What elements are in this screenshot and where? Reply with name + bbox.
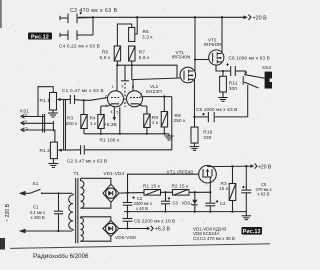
svg-text:3,3 к: 3,3 к [142,34,153,39]
C4 plus mark [216,200,218,202]
wire mains top to switch [24,192,31,194]
node dot R2/VD9 [194,191,196,193]
svg-text:+6,3 В: +6,3 В [155,227,171,233]
figure label Рис.13 [242,227,263,235]
XS1 contact pin 5 [21,128,25,132]
node dot R1/R2/C3 [164,191,166,193]
svg-text:IRF540N: IRF540N [204,42,223,47]
node dot C5 psu [245,165,247,167]
wire output node [195,116,209,118]
ground symbol bus [165,134,174,140]
svg-text:С1: С1 [33,205,39,210]
node dot grid1 / R3 [83,99,85,101]
svg-text:VD5-VD8: VD5-VD8 [115,235,136,240]
tube VL1 left triode envelope [108,91,124,107]
capacitor C3 [60,12,93,23]
zener VD9 [191,192,198,211]
svg-text:ХS2: ХS2 [262,65,272,70]
svg-text:Рис.13: Рис.13 [243,229,261,235]
main wire to R1 [128,191,211,194]
svg-text:1 к: 1 к [90,121,97,126]
resistor R10 [191,127,198,143]
grid right triode [130,97,139,99]
bus node R4 [100,133,102,135]
node dot C3/C4 to rail [92,16,94,18]
cathode left triode [101,104,119,106]
wire VT2 drain to rail [221,17,223,53]
svg-text:х 40 В: х 40 В [136,206,148,211]
node dot C1 bottom [57,230,59,232]
wire R8 to ground bus [146,128,148,134]
resistor R2 psu [173,190,190,196]
svg-text:0,1 мк х: 0,1 мк х [30,210,46,215]
svg-text:5,6 к: 5,6 к [139,55,150,60]
node dot R6 branch [136,16,138,18]
svg-text:R5: R5 [102,50,109,55]
capacitor C2 filter [123,193,132,212]
node dot R7 column [131,64,133,66]
wire output node to R10 [194,117,196,127]
C3 plus mark [168,197,170,199]
svg-text:Рис.12: Рис.12 [31,34,49,40]
svg-text:7: 7 [140,93,142,97]
C2 plus mark [132,196,134,198]
svg-text:5: 5 [116,111,118,115]
svg-text:VD1-VD4: VD1-VD4 [104,171,125,176]
+20V arrow [244,15,248,19]
svg-text:250 к: 250 к [174,118,187,123]
resistor R11 [220,76,227,92]
resistor R7 [129,46,135,61]
wire sec2 bottom to bridge [81,237,111,242]
capacitor C6 [223,63,246,76]
R1.2 wiper arrow [58,149,62,152]
resistor R6 [129,28,135,42]
bus dot VD9 [194,211,196,213]
svg-text:С4 0,22 мк х 63 В: С4 0,22 мк х 63 В [59,44,100,49]
T1 primary winding [69,193,73,231]
capacitor C4 psu [205,192,215,211]
wire pair wipers link [64,100,66,150]
node dot C1 top [57,192,59,194]
XS1 contact pin 3 [21,114,25,118]
resistor R9 [161,112,167,128]
svg-text:8: 8 [140,103,142,107]
wire sec1 top to bridge [81,178,111,184]
svg-text:С2 0,47 мк х 63 В: С2 0,47 мк х 63 В [67,159,107,164]
potentiometer R1.1 [50,93,57,111]
wire R4 to ground bus [100,129,102,134]
svg-text:х 400 В: х 400 В [31,215,45,220]
wire C4 to rail node [92,17,94,35]
ground under R1.1 [48,110,58,117]
+20V psu arrow [251,164,255,168]
svg-text:R1 100 к: R1 100 к [100,137,120,142]
ground bus upper figure [84,133,169,135]
wire grid2 node to R9 [163,97,165,112]
bus dot R3 [231,211,233,213]
svg-text:4: 4 [110,110,112,114]
wire R5 top to R6 top [117,24,131,46]
transistor VT2 (MOSFET) [209,50,224,65]
svg-text:250 к: 250 к [66,121,79,126]
node dot VT2 gate branch [194,58,196,60]
svg-text:С1 0,47 мк х 63 В: С1 0,47 мк х 63 В [62,88,104,93]
wire mains bottom to T1 primary [24,230,73,232]
svg-text:+20 В: +20 В [258,164,272,170]
capacitor C1 [70,95,84,104]
+6,3V arrow [147,227,151,230]
T1 secondary 1 winding [81,178,84,208]
bus node R8 [146,133,148,135]
bus node R9 [163,133,165,135]
svg-text:R7: R7 [139,50,146,55]
svg-text:IRF540N: IRF540N [172,55,191,60]
wire cathode2 to R8 [146,106,148,114]
capacitor C3 psu [161,192,170,211]
wire R7 bottom column [131,61,133,80]
wire tube to VT1 gate [132,78,181,80]
capacitor C2 [81,145,85,154]
wire XS1 pin3 [23,116,45,118]
node dot C2 / VT1 drain branch [126,192,128,194]
wire left anode [114,65,121,93]
wire VT1 source down [194,80,196,117]
ground under R11 [218,98,228,102]
node dot output [193,116,195,118]
svg-text:VL1: VL1 [150,84,159,89]
wire grid1 to R3 [83,100,85,114]
svg-text:6: 6 [132,85,134,89]
tube shield pin 9 [121,65,129,107]
node dot grid2 / R9 [163,95,165,97]
+20V rail psu [208,165,254,168]
svg-text:С3: С3 [173,201,179,206]
svg-text:15 к: 15 к [219,186,229,191]
svg-text:С5 1000 мк х 63 В: С5 1000 мк х 63 В [196,107,237,112]
svg-text:R1.1: R1.1 [40,98,51,103]
bus dot C4 [209,211,211,213]
grid left triode [111,97,120,99]
wire VT1 psu source to rail [207,165,209,166]
capacitor C1 mains [54,193,63,231]
svg-text:330: 330 [203,135,212,140]
wire R9 to ground bus [163,127,165,134]
svg-text:С4: С4 [220,201,226,206]
resistor R5 [114,46,120,61]
wire R5 bottom to anode node [116,61,118,65]
svg-text:+6,3В: +6,3В [104,122,117,128]
screen terminal bar [52,121,54,131]
resistor R1 psu [144,190,161,196]
svg-text:VD9: VD9 [182,201,191,206]
wire anode bus to VT1 gate bend [117,65,177,78]
connector XS2 jack [243,71,272,89]
XS1 cable screen bars [43,114,45,133]
potentiometer R1.2 [50,142,57,159]
wire R3 psu to bus [232,201,234,212]
svg-text:1: 1 [112,85,114,89]
wire bridge1 to main line [119,192,128,194]
wire R3 to ground bus [83,129,85,134]
node dot C6 tap [222,70,224,72]
svg-text:х 63 В: х 63 В [258,191,270,196]
wire R10 to ground [194,143,196,146]
svg-text:С6 1000 мк х 63 В: С6 1000 мк х 63 В [229,56,270,61]
svg-text:R2 15 к: R2 15 к [172,184,190,189]
svg-text:9: 9 [121,84,123,88]
wire VT1 drain to rail [194,17,196,71]
transistor VT1 (MOSFET) [180,67,196,83]
resistor R3 [81,115,87,129]
svg-text:VT1 IRF540: VT1 IRF540 [167,169,194,174]
wire sec1 bottom to bridge [81,202,111,208]
wire VT2 gate [195,59,209,61]
footer rule [10,244,270,249]
bus dot C3 [164,211,166,213]
wire rail to R3 psu [232,166,234,183]
ground symbol psu [242,216,252,220]
wire XS1 pin2 to screen bar [23,122,54,124]
resistor R8 [144,114,150,128]
bridge rectifier VD5-VD8 [103,221,119,237]
switch S1 [30,189,43,194]
wire C2 to grid2 riser [85,97,172,150]
svg-text:С6 2200 мк х 10 В: С6 2200 мк х 10 В [134,219,175,224]
T1 core [76,178,78,243]
node dot R5 anode [116,64,118,66]
resistor R3 psu [229,184,236,201]
+20V rail wire [78,16,246,18]
svg-text:1 к: 1 к [152,120,159,125]
resistor R4 [98,115,104,129]
ground under R1.2 [48,159,58,168]
wire R1.2 wiper to C2 [59,149,81,151]
figure label Рис.12 [28,33,52,41]
grid2 wire [139,96,172,99]
mains arrow bottom [19,229,26,234]
zero volt bus psu [124,211,246,213]
wire rail to R6 [135,17,137,34]
svg-text:Т1: Т1 [74,171,80,177]
svg-text:R1.2: R1.2 [40,148,51,153]
svg-text:S1: S1 [33,181,39,186]
capacitor C4 [60,30,93,40]
svg-text:+20 В: +20 В [253,15,268,21]
R1.1 wiper arrow [57,98,61,101]
bus node heater [119,133,121,135]
node dot VT1 drain branch [194,16,196,18]
wire VT2 source to R11 [216,65,223,76]
wire cathode1 to R4 [100,106,102,115]
wire bridge2 to +6,3V [119,228,150,230]
svg-text:С3,С4 470 мк х 35 В: С3,С4 470 мк х 35 В [193,236,235,241]
node dot gate/C4 [209,191,211,193]
wire VT1 psu gate [209,177,211,192]
svg-text:5,6 к: 5,6 к [100,55,111,60]
svg-text:300: 300 [229,86,238,91]
wire raw DC to VT1 drain [128,174,199,193]
svg-text:~ 220 В: ~ 220 В [5,203,11,222]
tube VL1 right triode envelope [127,91,143,107]
heater arrow [113,107,116,121]
wire right anode [130,80,137,94]
ground under R10 [190,147,200,151]
svg-text:R1 15 к: R1 15 к [143,184,161,189]
wire R1.1 wiper to C1 [58,99,71,101]
wire R1.1 top bracket to XS1 pin3 [38,87,53,117]
wire sec2 top to bridge [81,217,111,221]
svg-text:R6: R6 [143,29,150,34]
svg-text:Радиохобби 6/2006: Радиохобби 6/2006 [33,253,89,260]
capacitor C5 [202,112,247,122]
bus dot C2 [126,211,128,213]
XS1 contact pin 2 [21,121,25,125]
svg-text:R11: R11 [229,81,238,86]
wire switch to T1 primary [42,192,72,194]
grid1 wire [84,98,108,101]
capacitor C5 psu [241,166,251,215]
T1 secondary 2 winding [81,217,84,241]
svg-text:6Н23П: 6Н23П [146,89,162,95]
svg-text:С3 470 мк х 63 В: С3 470 мк х 63 В [70,8,118,14]
wire XS1 pin5 to R1.2 [23,130,55,142]
mains arrow top [19,191,26,196]
bridge rectifier VD1-VD4 [103,184,119,202]
wire XS2 return down [247,85,249,117]
svg-text:R10: R10 [203,130,212,135]
capacitor C6 heater [123,212,133,229]
wire R11 to ground [222,92,224,97]
cathode right triode [131,104,147,106]
node dot VT2 drain branch [221,16,223,18]
node dot R3 psu [231,165,233,167]
transistor VT1 psu [199,165,217,183]
node dot C6 heater bottom [126,227,128,229]
heater pin wire to ground bus [119,107,121,134]
svg-text:3: 3 [105,104,107,108]
